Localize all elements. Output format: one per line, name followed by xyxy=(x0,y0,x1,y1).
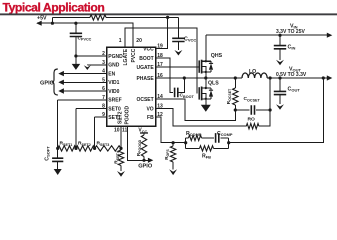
svg-text:RCOMP: RCOMP xyxy=(186,131,202,137)
capacitor CPVCC xyxy=(75,23,77,33)
svg-text:CIN: CIN xyxy=(288,45,296,51)
svg-text:VO: VO xyxy=(146,106,153,112)
riser to VOUT rail xyxy=(269,78,271,110)
GPIO input EN pin 4 xyxy=(60,73,107,75)
resistor RO xyxy=(246,124,259,129)
svg-text:CCOMP: CCOMP xyxy=(217,131,233,137)
resistor RCOMP xyxy=(186,137,189,139)
svg-text:COUT: COUT xyxy=(288,87,301,93)
svg-text:QHS: QHS xyxy=(211,53,223,59)
svg-text:7: 7 xyxy=(102,95,105,101)
VCC symbol xyxy=(140,132,148,134)
svg-text:5: 5 xyxy=(102,77,105,83)
svg-text:11: 11 xyxy=(122,128,128,134)
node VOUT feedback tap xyxy=(322,76,325,79)
VOUT rail xyxy=(267,77,328,79)
VIN rail xyxy=(206,34,328,36)
wire SREF pin 7 xyxy=(58,99,107,101)
resistor vcc-filter (unlabeled) xyxy=(52,16,90,18)
svg-text:UGATE: UGATE xyxy=(137,65,155,71)
svg-text:VID1: VID1 xyxy=(108,80,119,86)
+5V supply arrow xyxy=(37,22,53,24)
node COUT xyxy=(278,76,281,79)
inductor LO xyxy=(242,73,267,78)
ground below COUT xyxy=(276,104,284,110)
svg-text:19: 19 xyxy=(157,44,163,50)
svg-text:9: 9 xyxy=(102,112,105,118)
svg-text:RO: RO xyxy=(248,117,256,123)
title rule xyxy=(0,13,337,15)
wire PGND pin 2 xyxy=(76,55,107,57)
node CPVCC tap xyxy=(74,22,77,25)
svg-text:PVCC: PVCC xyxy=(131,48,137,62)
QHS source to PHASE xyxy=(205,72,207,78)
node COCSET right xyxy=(269,108,272,111)
capacitor CBOOT xyxy=(175,88,178,98)
QLS drain to PHASE xyxy=(205,78,207,88)
ground below ROFS xyxy=(169,169,177,175)
compensation branch wires xyxy=(185,138,187,149)
wire comp to VOUT xyxy=(229,78,324,143)
svg-text:10: 10 xyxy=(114,128,120,134)
resistor RSET1 xyxy=(58,146,76,151)
node +5V split xyxy=(51,22,54,25)
capacitor CSOFT xyxy=(52,158,63,161)
ground below RSET4 xyxy=(117,171,125,177)
PVCC rail wire xyxy=(52,23,133,47)
svg-text:Typical Application: Typical Application xyxy=(3,0,105,14)
wire to VCC pin 19 xyxy=(156,17,168,48)
capacitor CIN xyxy=(279,35,281,45)
GPIO input VID0 pin 6 xyxy=(60,90,107,92)
QHS drain to VIN xyxy=(205,35,207,61)
resistor RFB xyxy=(186,147,200,149)
svg-text:SET2: SET2 xyxy=(117,111,123,124)
node ROCSET top xyxy=(234,76,237,79)
wire SET0 pin 8 xyxy=(76,108,107,110)
resistor RSET2 xyxy=(76,146,95,151)
svg-text:8: 8 xyxy=(102,104,105,110)
node chain/RSET4 xyxy=(119,147,122,150)
wire FB pin 12 xyxy=(156,117,186,143)
node SET1 tap xyxy=(93,147,96,150)
svg-text:PHASE: PHASE xyxy=(136,76,154,82)
resistor RSET3 xyxy=(95,146,121,151)
wire SET1 pin 9 xyxy=(95,116,107,118)
node CBOOT/PHASE xyxy=(183,76,186,79)
svg-text:RFB: RFB xyxy=(202,153,211,159)
IC U1 box xyxy=(107,47,156,126)
node VOUT/OCSET riser xyxy=(269,76,272,79)
ground below CSOFT xyxy=(54,169,62,175)
capacitor CCOMP xyxy=(216,133,219,143)
svg-text:VID0: VID0 xyxy=(108,89,119,95)
svg-text:GPIO: GPIO xyxy=(40,80,55,86)
svg-text:PGOOD: PGOOD xyxy=(125,105,131,124)
node VCC rail xyxy=(166,16,169,19)
node OCSET line xyxy=(234,108,237,111)
svg-text:20: 20 xyxy=(136,38,142,44)
pin 1 LGATE wire to QLS gate xyxy=(125,28,197,93)
node ROFS tap xyxy=(172,141,175,144)
node comp left xyxy=(184,141,187,144)
node SET0 tap xyxy=(74,147,77,150)
resistor RPGOOD pull-up xyxy=(141,135,146,157)
svg-text:2: 2 xyxy=(102,51,105,57)
GPIO input VID1 pin 5 xyxy=(60,81,107,83)
wire PGOOD pin 11 to GPIO xyxy=(128,126,150,160)
node QHS-PHASE xyxy=(204,76,207,79)
svg-text:FB: FB xyxy=(147,115,154,121)
node PGND xyxy=(74,54,77,57)
svg-text:LGATE: LGATE xyxy=(123,48,129,65)
capacitor COCSET xyxy=(235,109,249,111)
svg-text:CSOFT: CSOFT xyxy=(44,146,50,161)
node CIN xyxy=(278,34,281,37)
svg-text:OCSET: OCSET xyxy=(136,97,153,103)
svg-text:VCC: VCC xyxy=(143,46,154,52)
svg-text:4: 4 xyxy=(102,69,105,75)
svg-text:CVCC: CVCC xyxy=(184,37,196,43)
wire GND pin 3 xyxy=(87,64,106,66)
wire BOOT pin 18 to CBOOT xyxy=(156,58,174,92)
QLS source to ground xyxy=(205,99,207,105)
svg-text:3: 3 xyxy=(102,60,105,66)
resistor ROCSET xyxy=(234,78,236,88)
svg-text:GND: GND xyxy=(108,63,120,69)
svg-text:+5V: +5V xyxy=(37,16,47,22)
node SREF/RSET1 xyxy=(56,147,59,150)
capacitor COUT xyxy=(279,78,281,91)
wire UGATE pin 17 to QHS gate xyxy=(156,66,200,68)
power ground below CPVCC xyxy=(75,56,77,64)
node comp right xyxy=(227,141,230,144)
svg-text:LO: LO xyxy=(249,69,256,75)
wire OCSET pin 14 xyxy=(156,99,236,120)
transistor QLS low-side xyxy=(198,87,200,99)
svg-text:PGND: PGND xyxy=(108,54,123,60)
svg-text:SREF: SREF xyxy=(108,98,121,104)
capacitor CVCC xyxy=(177,17,179,38)
svg-text:1: 1 xyxy=(119,38,122,44)
wire PHASE pin 16 xyxy=(156,77,243,79)
svg-text:GPIO: GPIO xyxy=(138,163,153,169)
svg-text:QLS: QLS xyxy=(208,80,219,86)
wire SET2 pin 10 xyxy=(120,126,122,148)
ground GND pin xyxy=(84,65,91,70)
transistor QHS high-side xyxy=(198,60,200,72)
svg-text:BOOT: BOOT xyxy=(139,56,153,62)
node RPGOOD xyxy=(142,159,145,162)
svg-text:EN: EN xyxy=(108,72,115,78)
resistor ROFS xyxy=(172,143,174,146)
ground below CIN xyxy=(276,60,284,66)
wire VO pin 13 through RO xyxy=(156,109,247,127)
svg-text:6: 6 xyxy=(102,86,105,92)
resistor RSET4 xyxy=(118,150,123,166)
